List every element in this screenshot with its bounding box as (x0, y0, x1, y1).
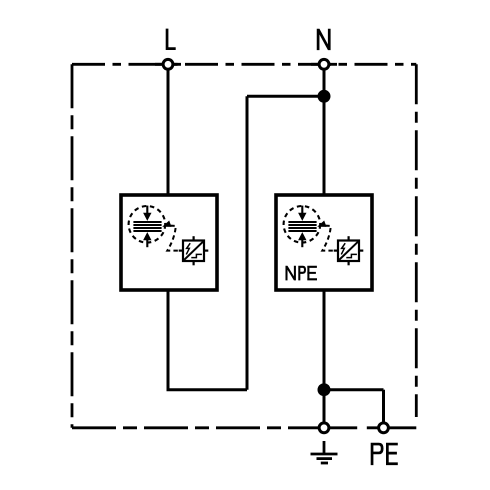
terminal to ground (circle) (319, 423, 329, 433)
label N (318, 29, 329, 50)
node: junction dot above ground terminal (318, 383, 331, 396)
SPD module 2 (N-PE) box (276, 195, 372, 290)
wire: horizontal run to N node junction (247, 95, 324, 98)
enclosure border top (dash-dot) (72, 63, 416, 66)
enclosure border right (dash-dot) (415, 64, 418, 417)
wire: L terminal down to left SPD box (167, 64, 170, 195)
wire: right SPD box bottom down to ground terminal (323, 290, 326, 428)
wire: solid stub under L terminal (155, 63, 181, 66)
SPD module 1 internal symbol (129, 206, 209, 266)
wire: horizontal run below left SPD (167, 388, 248, 391)
wire: vertical run up to N node (246, 96, 249, 389)
label PE (372, 443, 398, 465)
ground symbol bar 1 (311, 453, 338, 456)
ground symbol bar 3 (321, 462, 328, 465)
ground symbol stem (323, 441, 326, 453)
enclosure border left (dash-dot) (71, 64, 74, 428)
wire: N terminal down to right SPD box (323, 64, 326, 195)
terminal L (circle) (163, 59, 173, 69)
terminal N (circle) (319, 59, 329, 69)
ground symbol bar 2 (317, 457, 333, 460)
enclosure border bottom-left (dash-dot) (72, 426, 318, 429)
wire: branch junction to PE horizontal (324, 388, 384, 391)
terminal PE (circle) (379, 423, 389, 433)
label L (166, 29, 176, 50)
wire: solid stub under N terminal (311, 63, 337, 66)
wire: branch down to PE terminal (382, 390, 385, 428)
label NPE (287, 266, 318, 281)
SPD module 2 internal symbol (284, 206, 364, 266)
wire: left SPD box bottom down (167, 290, 170, 390)
enclosure border bottom-right (solid to PE corner, one gap) (318, 426, 357, 429)
SPD module 1 (L) box (121, 195, 217, 290)
node: junction dot at N branch (318, 90, 331, 103)
